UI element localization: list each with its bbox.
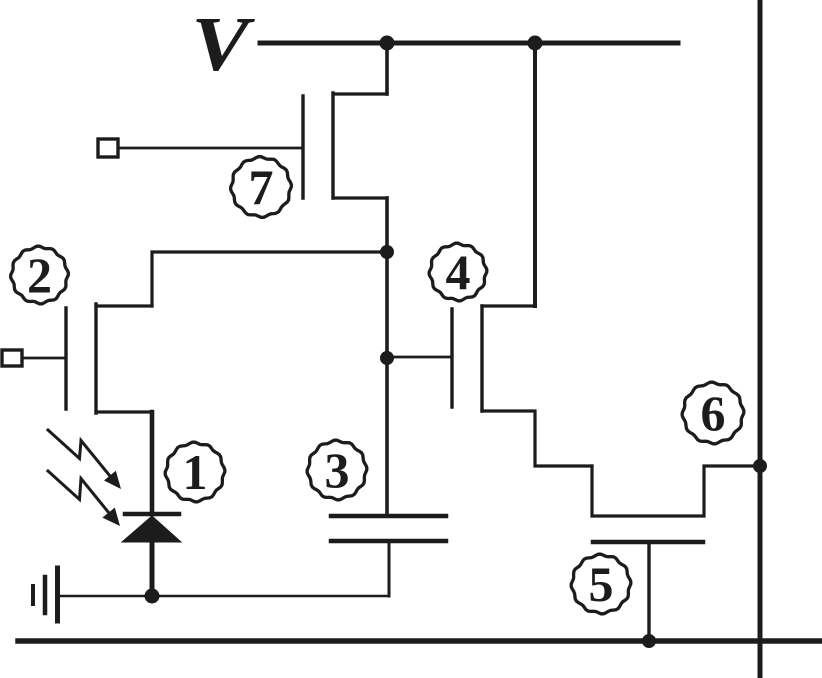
svg-text:1: 1 <box>183 444 208 500</box>
svg-text:2: 2 <box>27 247 52 303</box>
svg-text:5: 5 <box>589 556 614 612</box>
svg-text:V: V <box>191 1 255 87</box>
svg-text:3: 3 <box>325 442 350 498</box>
svg-text:6: 6 <box>701 385 726 441</box>
svg-text:7: 7 <box>249 159 274 215</box>
svg-text:4: 4 <box>446 244 471 300</box>
